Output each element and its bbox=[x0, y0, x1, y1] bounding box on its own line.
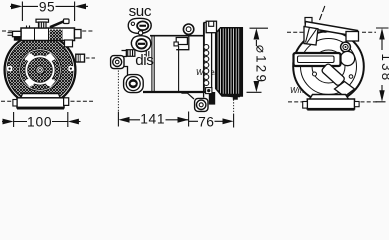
dimension 95 bbox=[10, 2, 88, 22]
svg-text:⌀129: ⌀129 bbox=[253, 45, 268, 84]
L-connector down to bushing bbox=[124, 67, 128, 76]
side bolt dots bbox=[7, 66, 12, 71]
horizontal bar bbox=[294, 53, 341, 66]
svg-text:141: 141 bbox=[140, 112, 165, 127]
bushing mount bbox=[124, 75, 144, 93]
suc port flange bbox=[128, 18, 151, 33]
mounting lug with hole bbox=[111, 56, 124, 69]
dimension 76 bbox=[233, 100, 235, 115]
flange plate with coil bbox=[204, 23, 211, 92]
top bracket housing bbox=[8, 19, 82, 47]
dimension 141 bbox=[117, 71, 119, 112]
white wedges (rotation arrows) bbox=[25, 53, 56, 87]
svg-text:76: 76 bbox=[198, 114, 214, 129]
pulley ribs bbox=[216, 28, 243, 96]
diamond bbox=[335, 82, 355, 97]
shaft cap bbox=[206, 21, 216, 33]
main pulley circle bbox=[5, 35, 96, 106]
top bracket bbox=[305, 18, 312, 24]
right side stub of front view bbox=[76, 54, 85, 62]
dimension 129 (vertical) bbox=[247, 28, 269, 92]
centerlines bbox=[287, 31, 376, 33]
small circles bbox=[313, 72, 317, 76]
svg-text:100: 100 bbox=[27, 115, 52, 130]
white clamp block on circle right bbox=[65, 40, 73, 47]
white ring bbox=[26, 56, 53, 83]
lever arm bbox=[50, 21, 65, 27]
dimension 100 bbox=[2, 112, 81, 127]
base pedestal bbox=[309, 95, 349, 100]
small square with dot bbox=[206, 88, 212, 94]
top ringed circle on body bbox=[187, 31, 191, 36]
svg-text:suc: suc bbox=[129, 3, 152, 20]
big circle bbox=[293, 31, 364, 102]
diagonal boss bbox=[321, 63, 346, 87]
top leader line bbox=[320, 6, 326, 21]
top stub with plate bbox=[36, 19, 49, 22]
bottom rear lug bbox=[195, 98, 208, 111]
bracket below dis bbox=[146, 51, 149, 57]
svg-text:138: 138 bbox=[379, 54, 389, 83]
right stub of bracket bbox=[75, 30, 82, 39]
center boss bbox=[36, 66, 44, 74]
svg-text:95: 95 bbox=[39, 0, 55, 15]
small mark left of stub bbox=[27, 26, 30, 29]
body outline bbox=[143, 23, 205, 100]
centerline top (left view) bbox=[2, 30, 93, 32]
shaft circle bbox=[340, 51, 354, 65]
watermark bbox=[30, 59, 305, 95]
small dot between ports bbox=[138, 31, 142, 35]
pedestal base (left view) bbox=[1, 94, 93, 110]
dimension 138 (vertical) bbox=[376, 28, 389, 102]
stepped bracket under circle bbox=[176, 38, 187, 45]
internal dividers bbox=[35, 28, 49, 41]
dis port flange bbox=[131, 36, 150, 52]
